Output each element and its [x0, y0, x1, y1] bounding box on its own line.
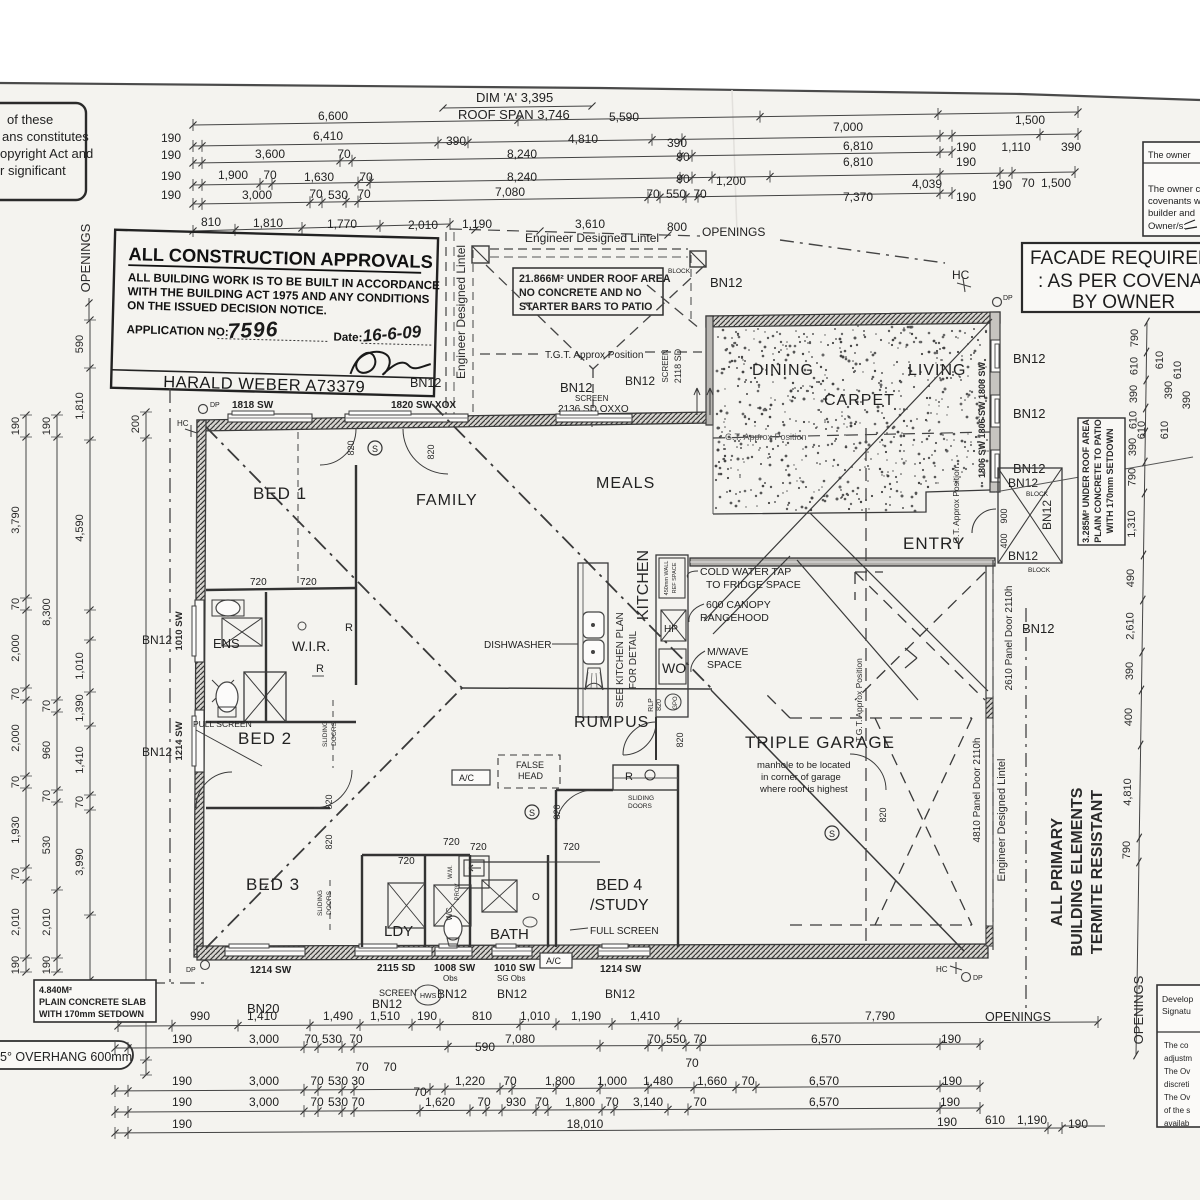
svg-text:RLP: RLP: [648, 698, 655, 712]
svg-text:The owner c: The owner c: [1148, 184, 1200, 195]
svg-text:3,000: 3,000: [249, 1074, 279, 1088]
svg-text:70: 70: [359, 170, 373, 184]
svg-text:390: 390: [1061, 140, 1081, 154]
svg-text:1,220: 1,220: [455, 1074, 485, 1088]
svg-text:90: 90: [676, 172, 690, 186]
svg-text:3,140: 3,140: [633, 1095, 663, 1109]
svg-text:70: 70: [10, 776, 22, 788]
svg-text:6,570: 6,570: [809, 1095, 839, 1109]
svg-text:BED 3: BED 3: [246, 875, 300, 894]
svg-text:OPENINGS: OPENINGS: [985, 1010, 1051, 1024]
svg-text:2,010: 2,010: [10, 908, 22, 936]
svg-text:8,300: 8,300: [41, 598, 53, 626]
svg-text:1,500: 1,500: [1041, 176, 1071, 190]
svg-text:6,810: 6,810: [843, 155, 873, 169]
svg-text:NO CONCRETE AND NO: NO CONCRETE AND NO: [519, 287, 642, 299]
svg-text:1010 SW: 1010 SW: [494, 963, 536, 974]
svg-text:1010 SW: 1010 SW: [174, 611, 185, 650]
svg-text:1,810: 1,810: [253, 216, 283, 230]
svg-text:820: 820: [346, 440, 356, 455]
svg-text:DP: DP: [973, 975, 983, 982]
svg-text:70: 70: [41, 790, 53, 802]
svg-text:390: 390: [1163, 381, 1175, 399]
svg-text:1,620: 1,620: [425, 1095, 455, 1109]
svg-text:FULL SCREEN: FULL SCREEN: [590, 926, 659, 937]
svg-text:490: 490: [1125, 569, 1137, 587]
svg-text:HC: HC: [177, 419, 189, 428]
svg-text:Owner/s:: Owner/s:: [1148, 221, 1186, 232]
svg-text:4.840M²: 4.840M²: [39, 985, 72, 995]
svg-text:discreti: discreti: [1164, 1080, 1190, 1089]
svg-text:30: 30: [351, 1074, 365, 1088]
svg-text:1,000: 1,000: [597, 1074, 627, 1088]
svg-text:610: 610: [985, 1113, 1005, 1127]
svg-text:590: 590: [475, 1040, 495, 1054]
svg-text:LDY: LDY: [384, 923, 413, 940]
svg-text:S: S: [829, 829, 835, 839]
svg-text:70: 70: [693, 1095, 707, 1109]
svg-text:1818 SW: 1818 SW: [232, 400, 274, 411]
svg-text:7596: 7596: [227, 318, 279, 343]
svg-text:4,039: 4,039: [912, 177, 942, 191]
svg-text:790: 790: [1127, 468, 1139, 486]
svg-text:DP: DP: [210, 402, 220, 409]
svg-text:SLIDING: SLIDING: [322, 721, 329, 747]
svg-text:BN12: BN12: [437, 987, 467, 1001]
svg-text:400: 400: [1123, 708, 1135, 726]
svg-text:190: 190: [956, 140, 976, 154]
svg-text:70: 70: [685, 1056, 699, 1070]
svg-text:930: 930: [506, 1095, 526, 1109]
svg-text:70: 70: [41, 700, 53, 712]
svg-text:390: 390: [1128, 385, 1140, 403]
svg-text:BY OWNER: BY OWNER: [1072, 292, 1175, 313]
svg-text:720: 720: [443, 837, 460, 848]
svg-text:DOORS: DOORS: [326, 890, 333, 915]
svg-text:1214 SW: 1214 SW: [250, 965, 292, 976]
svg-text:2610 Panel Door 2110h: 2610 Panel Door 2110h: [1004, 586, 1015, 691]
svg-text:1,770: 1,770: [327, 217, 357, 231]
svg-text:530: 530: [322, 1032, 342, 1046]
svg-text:OPENINGS: OPENINGS: [78, 223, 93, 292]
svg-text:HC: HC: [936, 965, 948, 974]
svg-text:RANGEHOOD: RANGEHOOD: [700, 612, 769, 624]
svg-text:opyright Act and: opyright Act and: [0, 146, 93, 161]
svg-text:190: 190: [172, 1095, 192, 1109]
svg-text:3,790: 3,790: [10, 506, 22, 534]
svg-text:FAMILY: FAMILY: [416, 492, 478, 509]
svg-text:Signatu: Signatu: [1162, 1006, 1191, 1016]
svg-text:390: 390: [1181, 391, 1193, 409]
svg-text:600 CANOPY: 600 CANOPY: [706, 599, 771, 611]
svg-text:PROV: PROV: [455, 883, 461, 900]
svg-text:190: 190: [172, 1074, 192, 1088]
svg-text:400: 400: [999, 533, 1009, 548]
svg-text:TRIPLE GARAGE: TRIPLE GARAGE: [745, 733, 895, 752]
svg-text:2,010: 2,010: [408, 218, 438, 232]
svg-text:BN12: BN12: [142, 745, 172, 759]
svg-text:PULL SCREEN: PULL SCREEN: [193, 719, 252, 729]
svg-text:BATH: BATH: [490, 926, 529, 943]
svg-text:530: 530: [41, 836, 53, 854]
svg-text:70: 70: [263, 168, 277, 182]
svg-text:190: 190: [992, 178, 1012, 192]
svg-text:1,900: 1,900: [218, 168, 248, 182]
svg-text:70: 70: [647, 1032, 661, 1046]
svg-text:530: 530: [328, 1074, 348, 1088]
svg-text:Engineer Designed Lintel: Engineer Designed Lintel: [454, 245, 468, 379]
svg-text:SLIDING: SLIDING: [628, 795, 654, 802]
svg-text:covenants w: covenants w: [1148, 196, 1200, 207]
svg-text:O: O: [532, 892, 540, 903]
svg-text:190: 190: [161, 131, 181, 145]
svg-text:1820 SW XOX: 1820 SW XOX: [391, 400, 456, 411]
svg-text:70: 70: [309, 187, 323, 201]
svg-text:2,610: 2,610: [1124, 612, 1136, 640]
svg-text:where roof is highest: where roof is highest: [759, 784, 848, 795]
svg-text:2,010: 2,010: [41, 908, 53, 936]
svg-text:610: 610: [1159, 421, 1171, 439]
svg-text:2,000: 2,000: [10, 724, 22, 752]
svg-text:BN12: BN12: [142, 633, 172, 647]
svg-text:STARTER BARS TO PATIO: STARTER BARS TO PATIO: [519, 301, 652, 313]
svg-text:BN12: BN12: [1008, 549, 1038, 563]
svg-text:Engineer Designed Lintel: Engineer Designed Lintel: [525, 231, 659, 245]
svg-text:in corner of garage: in corner of garage: [761, 772, 841, 783]
svg-text:WC: WC: [445, 907, 454, 921]
svg-text:610: 610: [1154, 351, 1166, 369]
svg-text:6,570: 6,570: [811, 1032, 841, 1046]
svg-text:7,790: 7,790: [865, 1009, 895, 1023]
svg-text:70: 70: [503, 1074, 517, 1088]
svg-text:18,010: 18,010: [567, 1117, 604, 1131]
svg-text:70: 70: [355, 1060, 369, 1074]
svg-text:FALSE: FALSE: [516, 760, 544, 770]
svg-text:190: 190: [41, 956, 53, 974]
svg-text:BN12: BN12: [410, 376, 441, 390]
svg-text:1,190: 1,190: [571, 1009, 601, 1023]
svg-text:ENTRY: ENTRY: [903, 534, 965, 553]
svg-text:Obs: Obs: [443, 974, 458, 983]
svg-text:1,410: 1,410: [630, 1009, 660, 1023]
svg-text:BN12: BN12: [1008, 476, 1038, 490]
svg-text:70: 70: [10, 688, 22, 700]
svg-text:70: 70: [646, 187, 660, 201]
svg-text:70: 70: [1021, 176, 1035, 190]
svg-text:BN12: BN12: [1040, 500, 1054, 530]
svg-text:820: 820: [426, 444, 436, 459]
svg-text:5° OVERHANG 600mm: 5° OVERHANG 600mm: [0, 1050, 132, 1064]
svg-text:BED 4: BED 4: [596, 877, 642, 894]
svg-text:APPLICATION NO:: APPLICATION NO:: [126, 323, 229, 339]
svg-text:ENS: ENS: [213, 636, 240, 651]
svg-text:4,810: 4,810: [1122, 778, 1134, 806]
svg-text:S: S: [372, 444, 378, 454]
svg-text:1,010: 1,010: [74, 652, 86, 680]
svg-text:450mm WALL: 450mm WALL: [664, 561, 670, 596]
svg-text:SCREEN: SCREEN: [661, 349, 670, 383]
svg-text:550: 550: [666, 187, 686, 201]
svg-text:BN12: BN12: [710, 275, 743, 290]
svg-text:960: 960: [41, 741, 53, 759]
svg-text:r significant: r significant: [0, 163, 66, 178]
svg-text:availab: availab: [1164, 1119, 1190, 1128]
svg-text:190: 190: [937, 1115, 957, 1129]
svg-text:7,370: 7,370: [843, 190, 873, 204]
svg-text:1214 SW: 1214 SW: [174, 721, 185, 760]
svg-text:70: 70: [605, 1095, 619, 1109]
svg-text:1,660: 1,660: [697, 1074, 727, 1088]
svg-text:3,600: 3,600: [255, 147, 285, 161]
svg-text:BN12: BN12: [1013, 406, 1046, 421]
svg-text:8,240: 8,240: [507, 147, 537, 161]
svg-text:: AS PER COVENANT: : AS PER COVENANT: [1038, 271, 1200, 292]
svg-text:70: 70: [535, 1095, 549, 1109]
svg-text:BLOCK: BLOCK: [1026, 491, 1049, 498]
svg-text:BN12: BN12: [605, 987, 635, 1001]
svg-text:1,410: 1,410: [74, 746, 86, 774]
svg-text:The owner: The owner: [1148, 150, 1191, 160]
svg-text:1,630: 1,630: [304, 170, 334, 184]
svg-text:1,200: 1,200: [716, 174, 746, 188]
svg-text:6,570: 6,570: [809, 1074, 839, 1088]
svg-text:3.285M² UNDER ROOF AREA: 3.285M² UNDER ROOF AREA: [1081, 419, 1091, 543]
svg-text:590: 590: [74, 335, 86, 353]
svg-text:190: 190: [172, 1032, 192, 1046]
svg-text:DIM 'A' 3,395: DIM 'A' 3,395: [476, 90, 553, 105]
svg-text:ans constitutes: ans constitutes: [2, 129, 89, 144]
svg-text:21.866M² UNDER ROOF AREA: 21.866M² UNDER ROOF AREA: [519, 273, 671, 285]
svg-text:7,080: 7,080: [495, 185, 525, 199]
svg-text:810: 810: [472, 1009, 492, 1023]
svg-text:manhole to be located: manhole to be located: [757, 760, 850, 771]
svg-text:2,000: 2,000: [10, 634, 22, 662]
svg-text:70: 70: [10, 868, 22, 880]
svg-text:SPACE: SPACE: [707, 659, 742, 671]
svg-text:HC: HC: [952, 268, 970, 282]
svg-text:190: 190: [41, 417, 53, 435]
svg-text:70: 70: [357, 187, 371, 201]
svg-text:of the s: of the s: [1164, 1106, 1190, 1115]
svg-text:390: 390: [446, 134, 466, 148]
svg-text:70: 70: [74, 796, 86, 808]
svg-text:530: 530: [328, 188, 348, 202]
svg-text:TO FRIDGE SPACE: TO FRIDGE SPACE: [706, 579, 801, 591]
svg-text:R: R: [345, 622, 353, 634]
svg-text:190: 190: [161, 148, 181, 162]
svg-text:T.G.T. Approx Position: T.G.T. Approx Position: [545, 350, 643, 361]
svg-text:70: 70: [693, 187, 707, 201]
svg-text:WITH 170mm SETDOWN: WITH 170mm SETDOWN: [1105, 428, 1115, 533]
svg-text:BLOCK: BLOCK: [668, 268, 691, 275]
svg-text:A/C: A/C: [459, 773, 475, 783]
svg-text:4810 Panel Door 2110h: 4810 Panel Door 2110h: [972, 738, 983, 843]
svg-text:M/WAVE: M/WAVE: [707, 646, 748, 658]
svg-text:FACADE REQUIREMENT: FACADE REQUIREMENT: [1030, 248, 1200, 269]
svg-text:BN12: BN12: [625, 374, 655, 388]
svg-text:790: 790: [1129, 329, 1141, 347]
svg-text:DP: DP: [1003, 295, 1013, 302]
svg-text:1,810: 1,810: [74, 392, 86, 420]
svg-text:70: 70: [693, 1032, 707, 1046]
svg-text:G.T. Approx Position: G.T. Approx Position: [725, 432, 807, 442]
svg-text:DOORS: DOORS: [628, 803, 653, 810]
svg-text:1,800: 1,800: [565, 1095, 595, 1109]
svg-text:6,410: 6,410: [313, 129, 343, 143]
svg-text:RUMPUS: RUMPUS: [574, 714, 649, 731]
svg-text:1,500: 1,500: [1015, 113, 1045, 127]
svg-text:REF SPACE: REF SPACE: [672, 562, 678, 593]
svg-text:1,390: 1,390: [74, 694, 86, 722]
svg-text:1,510: 1,510: [370, 1009, 400, 1023]
svg-text:70: 70: [310, 1074, 324, 1088]
svg-text:1,010: 1,010: [520, 1009, 550, 1023]
svg-text:2118 SD: 2118 SD: [673, 348, 683, 383]
svg-text:70: 70: [10, 598, 22, 610]
svg-text:WO: WO: [662, 660, 686, 676]
svg-text:DP: DP: [186, 967, 196, 974]
svg-text:W.M.: W.M.: [448, 865, 454, 879]
svg-text:SLIDING: SLIDING: [317, 890, 324, 916]
svg-text:DISHWASHER: DISHWASHER: [484, 640, 551, 651]
svg-text:The co: The co: [1164, 1041, 1189, 1050]
svg-text:7,000: 7,000: [833, 120, 863, 134]
svg-text:HEAD: HEAD: [518, 771, 544, 781]
svg-text:390: 390: [667, 136, 687, 150]
svg-text:3,000: 3,000: [249, 1095, 279, 1109]
svg-text:BN12: BN12: [560, 380, 593, 395]
svg-text:1214 SW: 1214 SW: [600, 964, 642, 975]
svg-text:390: 390: [1127, 438, 1139, 456]
svg-text:FOR DETAIL: FOR DETAIL: [628, 630, 639, 689]
svg-text:810: 810: [201, 215, 221, 229]
svg-text:BUILDING ELEMENTS: BUILDING ELEMENTS: [1069, 787, 1086, 956]
svg-text:Develop: Develop: [1162, 994, 1193, 1004]
svg-text:COLD WATER TAP: COLD WATER TAP: [700, 566, 791, 578]
svg-text:70: 70: [337, 147, 351, 161]
svg-text:BED 1: BED 1: [253, 484, 307, 503]
svg-text:190: 190: [417, 1009, 437, 1023]
svg-text:A/C: A/C: [546, 956, 562, 966]
svg-text:1,310: 1,310: [1126, 510, 1138, 538]
svg-text:adjustm: adjustm: [1164, 1054, 1192, 1063]
svg-text:190: 190: [10, 417, 22, 435]
svg-text:190: 190: [10, 956, 22, 974]
svg-text:Engineer Designed Lintel: Engineer Designed Lintel: [996, 759, 1008, 882]
svg-text:BN12: BN12: [1013, 351, 1046, 366]
svg-text:1,480: 1,480: [643, 1074, 673, 1088]
svg-text:70: 70: [383, 1060, 397, 1074]
svg-text:190: 190: [956, 190, 976, 204]
svg-text:PLAIN CONCRETE SLAB: PLAIN CONCRETE SLAB: [39, 997, 147, 1007]
svg-text:820: 820: [675, 732, 685, 747]
svg-text:SG Obs: SG Obs: [497, 974, 525, 983]
svg-text:1,190: 1,190: [1017, 1113, 1047, 1127]
svg-text:1,490: 1,490: [323, 1009, 353, 1023]
svg-text:R: R: [625, 771, 633, 783]
svg-text:G.T. Approx Position: G.T. Approx Position: [951, 466, 961, 543]
svg-text:WITH 170mm SETDOWN: WITH 170mm SETDOWN: [39, 1009, 144, 1019]
svg-text:Date:: Date:: [333, 331, 362, 345]
svg-text:PLAIN CONCRETE TO PATIO: PLAIN CONCRETE TO PATIO: [1093, 419, 1103, 543]
svg-text:SCREEN: SCREEN: [575, 394, 609, 403]
svg-text:190: 190: [161, 169, 181, 183]
svg-text:390: 390: [1124, 662, 1136, 680]
svg-text:720: 720: [300, 577, 317, 588]
svg-text:720: 720: [250, 577, 267, 588]
svg-text:1806 SW 1806 SW 1806 SW: 1806 SW 1806 SW 1806 SW: [977, 361, 987, 478]
svg-text:GPO: GPO: [673, 696, 679, 710]
svg-text:HP: HP: [664, 624, 678, 635]
svg-text:190: 190: [956, 155, 976, 169]
svg-text:SEE KITCHEN PLAN: SEE KITCHEN PLAN: [615, 612, 626, 708]
svg-text:BN12: BN12: [1022, 621, 1055, 636]
svg-text:of these: of these: [7, 112, 53, 127]
svg-text:190: 190: [942, 1074, 962, 1088]
svg-text:190: 190: [940, 1095, 960, 1109]
svg-text:3,610: 3,610: [575, 217, 605, 231]
svg-text:610: 610: [1172, 361, 1184, 379]
svg-text:720: 720: [398, 856, 415, 867]
svg-text:W.I.R.: W.I.R.: [292, 638, 330, 654]
svg-text:BN12: BN12: [497, 987, 527, 1001]
svg-text:MEALS: MEALS: [596, 475, 655, 492]
svg-text:190: 190: [941, 1032, 961, 1046]
svg-text:5,590: 5,590: [609, 110, 639, 124]
svg-text:DINING: DINING: [752, 362, 814, 379]
svg-text:/STUDY: /STUDY: [590, 897, 649, 914]
svg-text:70: 70: [741, 1074, 755, 1088]
svg-text:720: 720: [563, 842, 580, 853]
svg-text:820: 820: [878, 807, 888, 822]
svg-text:BED 2: BED 2: [238, 729, 292, 748]
svg-text:1,410: 1,410: [247, 1009, 277, 1023]
svg-text:200: 200: [130, 415, 142, 433]
svg-text:1008 SW: 1008 SW: [434, 963, 476, 974]
svg-text:990: 990: [190, 1009, 210, 1023]
svg-text:1,110: 1,110: [1001, 140, 1030, 154]
svg-text:CARPET: CARPET: [824, 392, 895, 409]
svg-text:1,930: 1,930: [10, 816, 22, 844]
svg-text:820: 820: [324, 794, 334, 809]
svg-text:820: 820: [324, 834, 334, 849]
svg-text:90: 90: [676, 150, 690, 164]
svg-text:S: S: [529, 808, 535, 818]
svg-text:3,000: 3,000: [242, 188, 272, 202]
svg-text:70: 70: [310, 1095, 324, 1109]
svg-text:190: 190: [1068, 1117, 1088, 1131]
svg-text:The Ov: The Ov: [1164, 1067, 1190, 1076]
svg-text:70: 70: [477, 1095, 491, 1109]
svg-text:ALL PRIMARY: ALL PRIMARY: [1049, 817, 1066, 926]
svg-text:KITCHEN: KITCHEN: [635, 550, 652, 620]
svg-text:550: 550: [666, 1032, 686, 1046]
svg-text:8,240: 8,240: [507, 170, 537, 184]
svg-text:7,080: 7,080: [505, 1032, 535, 1046]
svg-text:3,990: 3,990: [74, 848, 86, 876]
svg-text:BLOCK: BLOCK: [1028, 567, 1051, 574]
svg-text:R: R: [316, 663, 324, 675]
svg-text:The Ov: The Ov: [1164, 1093, 1190, 1102]
svg-text:2115 SD: 2115 SD: [377, 963, 415, 974]
svg-text:4,590: 4,590: [74, 514, 86, 542]
svg-text:820: 820: [656, 699, 663, 711]
svg-text:TERMITE RESISTANT: TERMITE RESISTANT: [1089, 790, 1106, 954]
svg-text:1,800: 1,800: [545, 1074, 575, 1088]
svg-text:190: 190: [161, 188, 181, 202]
svg-text:OPENINGS: OPENINGS: [702, 225, 765, 239]
svg-text:790: 790: [1121, 841, 1133, 859]
